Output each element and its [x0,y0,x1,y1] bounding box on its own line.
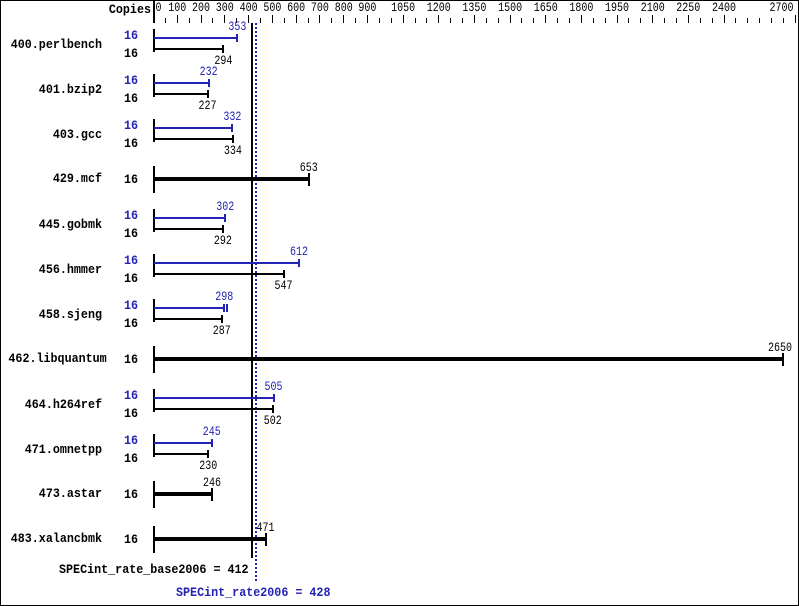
dotted peak line 428 [255,23,257,583]
solid base line 412 [251,23,253,558]
benchmark group 403.gcc [8,130,102,140]
benchmark group 462.libquantum [8,354,102,364]
benchmark group 445.gobmk [8,220,102,230]
benchmark group 473.astar [8,489,102,499]
benchmark group 401.bzip2 [8,85,102,95]
benchmark group 400.perlbench [8,40,102,50]
axis ticks and labels [165,18,166,23]
summary texts [59,565,249,575]
benchmark group 456.hmmer [8,265,102,275]
benchmark group 458.sjeng [8,310,102,320]
axis origin line [153,1,155,23]
benchmark group 483.xalancbmk [8,534,102,544]
benchmark group 471.omnetpp [8,445,102,455]
benchmark group 429.mcf [8,174,102,184]
benchmark group 464.h264ref [8,400,102,410]
Copies column header [57,5,151,15]
